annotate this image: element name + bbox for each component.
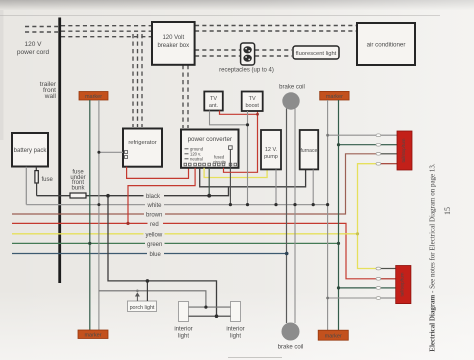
- trailer front wall (thick line): [58, 18, 61, 284]
- wire: marker gray vertical (left): [98, 100, 100, 330]
- svg-text:breaker box: breaker box: [157, 43, 189, 49]
- dashed drop to refrigerator: [133, 34, 142, 127]
- wire: TV ant gray to TV boost gray: [210, 111, 248, 125]
- svg-text:tail/stop/turn: tail/stop/turn: [401, 138, 406, 162]
- fuse F1 (battery fuse): [35, 171, 54, 183]
- svg-text:receptacles (up to 4): receptacles (up to 4): [219, 68, 274, 74]
- wire: battery positive to fuse: [35, 167, 37, 171]
- 12 V. pump: [261, 130, 281, 169]
- feeder wire: black wire to porch/interior lights: [108, 196, 217, 317]
- wire: brake coils to white wire: [294, 109, 296, 324]
- blue wire: [12, 253, 287, 255]
- svg-text:15: 15: [443, 207, 452, 215]
- svg-text:furnace: furnace: [301, 148, 318, 154]
- svg-text:light: light: [230, 334, 241, 340]
- fluorescent light: [293, 46, 339, 59]
- 120V dashed run receptacles to fluorescent light: [255, 50, 292, 56]
- wire: converter output drop to black wire: [208, 168, 210, 196]
- TV boost: [242, 92, 263, 112]
- wire: interior light bus 1: [189, 306, 231, 308]
- svg-text:wall: wall: [44, 93, 57, 100]
- svg-text:Electrical Diagram - See notes: Electrical Diagram - See notes for Elect…: [429, 163, 437, 352]
- wire: gray feed to upper tail light: [328, 134, 376, 136]
- fuse F2 (fuse under front bunk, inline on black wire): [70, 193, 86, 198]
- svg-text:white: white: [147, 203, 163, 209]
- refrigerator: [123, 129, 162, 167]
- 120V dashed run breaker to receptacles: [195, 50, 240, 56]
- svg-text:marker: marker: [326, 94, 343, 100]
- marker (bottom left): [78, 330, 108, 339]
- yellow wire branch up to tail light: [358, 164, 377, 234]
- 120V dashed run breaker to air conditioner: [195, 26, 356, 32]
- wire: TV ant red to red riser: [220, 111, 258, 115]
- wire: converter red output to red wire: [128, 168, 195, 224]
- wire: gray feed to lower tail light: [328, 297, 376, 299]
- svg-text:interior: interior: [174, 327, 192, 333]
- wire: refrigerator 12V red to power converter: [127, 167, 189, 179]
- svg-text:brown: brown: [146, 213, 162, 219]
- green wire: [12, 242, 339, 244]
- tail/stop/turn light (lower) connector stubs: [381, 269, 396, 299]
- svg-text:marker: marker: [85, 94, 102, 100]
- svg-text:pump: pump: [264, 154, 278, 160]
- feeder wire: marker gray to porch/interior lights: [99, 291, 206, 307]
- svg-text:fuse: fuse: [42, 177, 54, 183]
- tail/stop/turn light (upper) connector stubs: [381, 135, 397, 164]
- black wire (main 12V hot): [37, 187, 229, 196]
- svg-text:red: red: [150, 222, 159, 228]
- margin caption: Electrical Diagram note (rotated): [429, 163, 437, 352]
- marker (bottom right): [318, 330, 348, 340]
- TV ant: [204, 92, 223, 111]
- wire: interior light bus 2: [189, 315, 231, 317]
- marker (top left): [79, 92, 108, 101]
- 120 Volt breaker box: [152, 22, 195, 65]
- wire: marker green vertical (right): [338, 100, 340, 330]
- wire: refrigerator neutral to marker gray vertical: [99, 151, 123, 153]
- svg-text:12 V.: 12 V.: [265, 147, 278, 153]
- wire: converter red feed up to TV boost / TV ant: [224, 111, 258, 172]
- svg-text:porch light: porch light: [130, 305, 155, 311]
- svg-text:black: black: [146, 194, 161, 200]
- 120V dashed run wall to breaker box: [61, 26, 152, 37]
- svg-text:TV: TV: [249, 96, 256, 102]
- yellow wire: [12, 233, 358, 235]
- svg-text:circuits: circuits: [213, 160, 226, 165]
- svg-text:yellow: yellow: [146, 232, 163, 238]
- label: 120 V power cord: [17, 41, 50, 56]
- wire: brake coils to blue wire: [286, 109, 288, 324]
- label: trailer front wall: [40, 81, 57, 100]
- wire: converter fused circuits neutral drop to white wire: [229, 149, 231, 204]
- yellow wire branch down to lower tail light: [358, 234, 377, 269]
- svg-text:interior: interior: [226, 327, 244, 333]
- svg-text:power cord: power cord: [17, 49, 50, 56]
- brown wire: [12, 154, 376, 214]
- page number 15 (rotated): [443, 207, 452, 215]
- wire: fuse to black wire corner: [36, 183, 38, 196]
- svg-text:120 V: 120 V: [25, 41, 43, 48]
- wire: converter yellow output to 12V pump: [204, 168, 267, 178]
- power converter: [181, 130, 239, 168]
- svg-text:brake coil: brake coil: [279, 85, 305, 91]
- wire: porch light right lead: [146, 281, 148, 301]
- svg-text:battery pack: battery pack: [14, 148, 48, 154]
- svg-text:green: green: [147, 242, 162, 248]
- svg-text:refrigerator: refrigerator: [128, 140, 156, 146]
- wire: battery negative to white wire: [25, 167, 27, 205]
- white wire (neutral): [26, 204, 327, 206]
- 120V power cord dashed pair (left of wall): [25, 27, 58, 33]
- label: fuse under front bunk: [70, 170, 85, 192]
- battery pack: [12, 133, 48, 167]
- wire: marker green vertical (left): [89, 100, 91, 330]
- svg-text:light: light: [178, 334, 189, 340]
- wire: porch light left lead with connector: [135, 292, 140, 301]
- brake coil (lower): [278, 323, 304, 351]
- wire: pump gray drop to white wire: [275, 169, 277, 204]
- wire: green feed to upper tail light: [339, 144, 377, 146]
- svg-text:bunk: bunk: [71, 185, 85, 191]
- svg-text:boost: boost: [245, 103, 259, 109]
- svg-text:marker: marker: [325, 334, 342, 340]
- tail/stop/turn light (lower): [396, 266, 411, 304]
- svg-text:marker: marker: [84, 333, 101, 339]
- power converter terminal strip: [184, 163, 237, 166]
- wire: marker gray vertical (right): [327, 100, 329, 330]
- svg-text:power converter: power converter: [188, 136, 232, 143]
- label: receptacles (up to 4): [219, 68, 274, 74]
- wire: green feed to lower tail light: [339, 287, 377, 289]
- red wire: [12, 223, 376, 278]
- interior light 1: [174, 302, 192, 340]
- wire: converter black output to furnace: [200, 168, 306, 187]
- marker (top right): [320, 91, 349, 100]
- svg-text:tail/stop/turn: tail/stop/turn: [399, 272, 404, 296]
- wire: furnace gray drop to white wire: [312, 169, 314, 204]
- porch light: [128, 301, 157, 312]
- furnace: [300, 130, 319, 169]
- svg-text:120 Volt: 120 Volt: [162, 35, 184, 41]
- svg-text:TV: TV: [210, 96, 217, 102]
- dashed drop breaker to power converter: [183, 65, 188, 128]
- svg-text:neutral: neutral: [190, 157, 203, 162]
- interior light 2: [226, 302, 244, 340]
- svg-text:fluorescent light: fluorescent light: [296, 51, 337, 57]
- tail/stop/turn light (upper): [397, 131, 412, 170]
- wire: TV boost gray drop to white wire: [247, 111, 249, 205]
- svg-text:blue: blue: [150, 252, 162, 258]
- brake coil (upper): [279, 85, 305, 110]
- wire labels black/white/brown/red/yellow/green/blue: [144, 192, 166, 259]
- svg-text:air conditioner: air conditioner: [367, 42, 406, 49]
- svg-text:brake coil: brake coil: [278, 345, 304, 351]
- receptacles symbol: [241, 43, 255, 65]
- air conditioner: [357, 23, 415, 65]
- svg-text:ant.: ant.: [209, 103, 219, 109]
